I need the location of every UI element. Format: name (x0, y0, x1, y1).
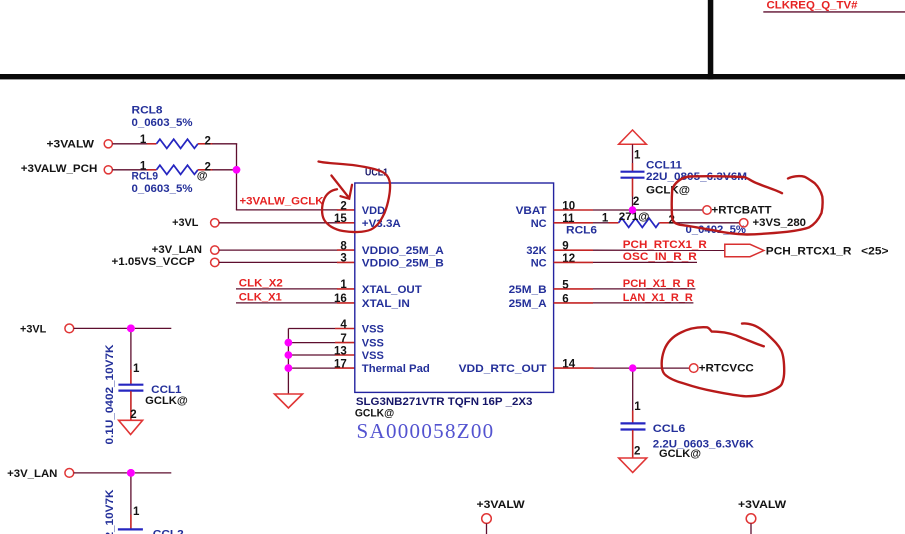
svg-text:1: 1 (140, 134, 147, 146)
capacitor CCL11 (621, 144, 748, 210)
svg-text:NC: NC (531, 218, 547, 230)
svg-text:+3VALW: +3VALW (477, 499, 526, 511)
wire junction right dangling (135, 327, 171, 329)
svg-text:2: 2 (633, 196, 639, 208)
wire pin9 to off-page arrow (593, 249, 725, 251)
svg-text:PCH_RTCX1_R: PCH_RTCX1_R (766, 245, 852, 257)
svg-text:13: 13 (334, 345, 347, 357)
node +RTCVCC (689, 364, 698, 373)
pin stub pin15 (337, 222, 355, 224)
wire +1.05VS_VCCP to pin3 (219, 261, 338, 263)
pin stub pin3 (337, 261, 355, 263)
svg-text:LAN_X1_R_R: LAN_X1_R_R (623, 292, 693, 304)
ground VSS (275, 394, 303, 408)
wire pin5 (593, 288, 695, 290)
svg-text:GCLK@: GCLK@ (646, 184, 690, 196)
svg-text:0.1U_0402_10V7K: 0.1U_0402_10V7K (104, 344, 116, 444)
VSS vertical bus (287, 329, 289, 394)
svg-text:1: 1 (602, 212, 609, 224)
svg-text:0_0603_5%: 0_0603_5% (132, 183, 193, 195)
svg-text:0_0603_5%: 0_0603_5% (132, 117, 193, 129)
node +RTCBATT (703, 206, 711, 214)
wire corner down to junction (236, 144, 238, 170)
capacitor CCL6 (621, 368, 754, 460)
wire +3V_LAN to pin8 (219, 249, 338, 251)
svg-text:1: 1 (634, 401, 641, 413)
wire RCL8 pin2 to corner (212, 143, 237, 145)
svg-text:+3VALW: +3VALW (738, 499, 787, 511)
ground CCL6 (619, 458, 647, 473)
svg-text:SLG3NB271VTR TQFN 16P _2X3: SLG3NB271VTR TQFN 16P _2X3 (356, 396, 533, 408)
right side pin stubs (554, 209, 593, 211)
svg-text:CLK_X2: CLK_X2 (239, 277, 283, 289)
pin numbers left (334, 200, 347, 370)
svg-text:CCL1: CCL1 (151, 384, 181, 396)
node +3VS_280 (740, 219, 748, 227)
off-page connector PCH_RTCX1_R (725, 244, 764, 256)
svg-text:GCLK@: GCLK@ (145, 395, 188, 407)
svg-text:16: 16 (334, 293, 347, 305)
wire CLK_X2 to pin1 (236, 288, 338, 290)
svg-text:2: 2 (634, 445, 640, 457)
annotation doodle circle around UCL1 pin2 (319, 162, 391, 233)
svg-text:8: 8 (340, 240, 347, 252)
svg-text:1: 1 (140, 160, 147, 172)
svg-text:+RTCVCC: +RTCVCC (699, 363, 754, 375)
svg-text:CCL6: CCL6 (653, 423, 686, 435)
svg-text:+3VALW_PCH: +3VALW_PCH (21, 163, 98, 175)
svg-text:<25>: <25> (861, 245, 888, 257)
wire +3VALW stem (486, 523, 488, 534)
svg-text:VSS: VSS (362, 338, 384, 350)
wire CLKREQ_Q_TV# (763, 11, 905, 13)
annotation doodle blob around +RTCVCC (662, 323, 785, 396)
svg-text:15: 15 (334, 213, 347, 225)
svg-text:PCH_X1_R_R: PCH_X1_R_R (623, 278, 695, 290)
svg-text:RCL8: RCL8 (132, 105, 163, 117)
svg-text:+3VL: +3VL (172, 217, 199, 229)
svg-text:VSS: VSS (362, 324, 384, 336)
svg-text:+3VALW_GCLK: +3VALW_GCLK (240, 195, 324, 207)
svg-text:3: 3 (340, 253, 346, 265)
svg-text:25M_A: 25M_A (509, 298, 547, 310)
pin stub pin8 (337, 249, 355, 251)
power symbol above CCL11 (619, 130, 647, 144)
junction VSS pin17 (285, 364, 293, 372)
pin numbers right (562, 200, 575, 370)
junction CCL1 (127, 325, 135, 333)
wire VBAT pin10 to +RTCBATT (593, 209, 703, 211)
wire +3V_LAN to junction (74, 472, 127, 474)
svg-text:GCLK@: GCLK@ (355, 407, 395, 419)
sheet border vertical line (708, 0, 714, 79)
resistor RCL9 (132, 160, 213, 195)
svg-text:@: @ (197, 170, 208, 182)
svg-text:1: 1 (133, 506, 140, 518)
svg-text:32K: 32K (526, 245, 546, 257)
resistor RCL6 (566, 211, 746, 237)
wire +3VALW_PCH to RCL9 pin1 (112, 169, 147, 171)
wire +3VALW_GCLK to chip pin2 (236, 209, 338, 211)
svg-text:+3V_LAN: +3V_LAN (152, 244, 202, 256)
svg-text:CLK_X1: CLK_X1 (239, 291, 282, 303)
junction VSS pin13 (285, 351, 293, 359)
svg-text:VSS: VSS (362, 350, 384, 362)
svg-text:+3VALW: +3VALW (47, 139, 95, 151)
junction VSS pin7 (285, 339, 293, 347)
svg-text:0.1U_0402_10V7K: 0.1U_0402_10V7K (104, 489, 116, 534)
resistor RCL8 (132, 105, 213, 149)
junction CCL11/VBAT (629, 206, 636, 213)
svg-text:PCH_RTCX1_R: PCH_RTCX1_R (623, 239, 707, 251)
svg-text:SA000058Z00: SA000058Z00 (357, 419, 495, 443)
svg-text:1: 1 (133, 363, 140, 375)
svg-text:2: 2 (204, 135, 210, 147)
wire RCL6 pin2 to +3VS_280 (674, 222, 740, 224)
svg-text:2: 2 (130, 409, 136, 421)
svg-text:OSC_IN_R_R: OSC_IN_R_R (623, 251, 697, 263)
svg-text:Thermal Pad: Thermal Pad (362, 363, 430, 375)
junction CCL2 (127, 469, 135, 477)
pin names right (459, 205, 547, 375)
svg-text:+1.05VS_VCCP: +1.05VS_VCCP (112, 256, 195, 268)
svg-text:4: 4 (340, 319, 347, 331)
junction RCL8/RCL9 (233, 166, 241, 174)
pin stub pin2 (337, 209, 355, 211)
svg-text:VDDIO_25M_B: VDDIO_25M_B (362, 257, 444, 269)
svg-text:VDD: VDD (362, 205, 385, 217)
wire RCL9 pin2 to junction (212, 169, 236, 171)
junction dots top layer (127, 166, 636, 477)
pin stub pin16 (337, 302, 355, 304)
wire junction down (236, 170, 238, 210)
ground CCL1 (119, 420, 143, 434)
svg-text:2: 2 (340, 200, 346, 212)
svg-text:XTAL_OUT: XTAL_OUT (362, 284, 422, 296)
pin stub pin1 (337, 288, 355, 290)
svg-text:CCL11: CCL11 (646, 160, 682, 172)
wire +3VALW stem (750, 523, 752, 534)
wire pin12 (593, 261, 697, 263)
svg-text:1: 1 (340, 279, 347, 291)
svg-text:1: 1 (634, 149, 641, 161)
junction CCL6/pin14 (629, 364, 636, 371)
wire junction right dangling (135, 472, 171, 474)
wire CLK_X1 to pin16 (236, 302, 338, 304)
svg-text:CLKREQ_Q_TV#: CLKREQ_Q_TV# (767, 0, 858, 12)
svg-text:+3VS_280: +3VS_280 (753, 217, 807, 229)
wire +3VALW to RCL8 pin1 (112, 143, 147, 145)
wire +3VL to junction (74, 327, 127, 329)
wire pin14 to +RTCVCC (594, 367, 690, 369)
svg-text:VDD_RTC_OUT: VDD_RTC_OUT (459, 363, 547, 375)
wire +3VL to pin15 (219, 222, 338, 224)
svg-text:+3VL: +3VL (20, 324, 47, 336)
svg-text:VDDIO_25M_A: VDDIO_25M_A (362, 245, 444, 257)
svg-text:VBAT: VBAT (516, 205, 547, 217)
annotation doodle blob around +RTCBATT (672, 176, 823, 234)
wire pin6 (593, 302, 693, 304)
VSS bus wires pins 4/7/13/17 (288, 328, 335, 330)
pin names left (362, 205, 444, 375)
svg-text:XTAL_IN: XTAL_IN (362, 298, 410, 310)
sheet border horizontal line (0, 74, 905, 79)
capacitor CCL1 (104, 328, 188, 444)
svg-text:GCLK@: GCLK@ (659, 448, 701, 460)
svg-text:+RTCBATT: +RTCBATT (712, 205, 772, 217)
IC UCL1 body (355, 183, 554, 392)
svg-text:7: 7 (340, 333, 346, 345)
svg-text:17: 17 (334, 358, 347, 370)
svg-text:25M_B: 25M_B (509, 284, 547, 296)
svg-text:NC: NC (531, 257, 547, 269)
svg-text:RCL6: RCL6 (566, 225, 597, 237)
capacitor CCL2 (104, 473, 184, 534)
svg-text:+3V_LAN: +3V_LAN (7, 468, 57, 480)
svg-text:CCL2: CCL2 (153, 529, 184, 534)
